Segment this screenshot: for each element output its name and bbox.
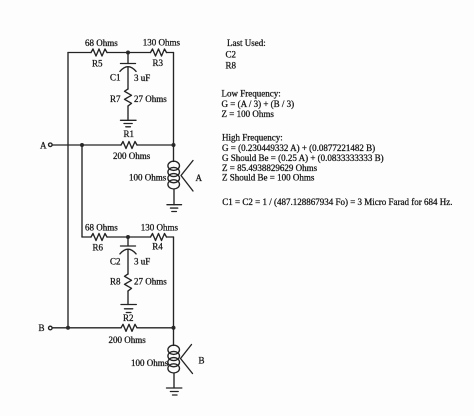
svg-text:G = (A / 3) + (B / 3): G = (A / 3) + (B / 3) [222, 99, 295, 109]
resistor R6 [91, 234, 107, 241]
wire B-section top middle segment [107, 236, 151, 238]
ground (below inductor A) [167, 205, 182, 212]
wire C2 top lead [127, 237, 129, 246]
wire A horizontal right segment [137, 144, 174, 146]
svg-text:Low Frequency:: Low Frequency: [222, 88, 281, 98]
svg-text:C2: C2 [226, 50, 237, 60]
svg-text:200 Ohms: 200 Ohms [113, 151, 151, 161]
resistor R5 [91, 49, 107, 56]
svg-text:A: A [196, 173, 203, 183]
wire R7 to ground [127, 106, 129, 120]
node B junction dot [66, 326, 70, 330]
wire B horizontal left segment [52, 327, 121, 329]
svg-text:R4: R4 [152, 242, 163, 252]
ground (below R8) [121, 305, 136, 313]
inductor L1 (speaker A coil) [168, 161, 180, 189]
svg-text:R3: R3 [153, 58, 164, 68]
svg-text:68 Ohms: 68 Ohms [85, 223, 118, 233]
node junction dot A right [172, 143, 176, 147]
node junction dot B right [172, 326, 176, 330]
svg-text:130 Ohms: 130 Ohms [141, 223, 179, 233]
svg-text:Z Should Be = 100 Ohms: Z Should Be = 100 Ohms [222, 173, 315, 183]
wire inductor A top lead [173, 145, 175, 162]
svg-text:27 Ohms: 27 Ohms [134, 277, 167, 287]
resistor R4 [151, 234, 167, 241]
node top junction dot [126, 51, 130, 55]
terminal B [39, 323, 53, 333]
capacitor C2 [120, 246, 136, 254]
resistor R8 [125, 274, 132, 291]
svg-text:3 uF: 3 uF [134, 257, 150, 267]
wire top left vertical (node B riser) [67, 53, 69, 328]
wire R8 to ground [127, 291, 129, 305]
svg-text:R7: R7 [110, 94, 121, 104]
wire C2 to R8 [127, 249, 129, 274]
svg-text:G = (0.230449332 A) + (0.08772: G = (0.230449332 A) + (0.0877221482 B) [222, 143, 375, 153]
wire C1 top lead [127, 53, 129, 64]
svg-text:100 Ohms: 100 Ohms [131, 358, 169, 368]
svg-text:C2: C2 [110, 257, 121, 267]
wire top horizontal right segment [167, 52, 174, 54]
resistor R7 [125, 89, 132, 106]
svg-text:R6: R6 [93, 242, 104, 252]
svg-text:High Frequency:: High Frequency: [222, 133, 283, 143]
wire top horizontal left segment [68, 52, 91, 54]
svg-text:R5: R5 [92, 59, 103, 69]
svg-text:130 Ohms: 130 Ohms [143, 38, 181, 48]
node A junction dot [80, 143, 84, 147]
wire B horizontal right segment [137, 327, 174, 329]
wire inductor B bottom lead [173, 373, 175, 388]
svg-text:27 Ohms: 27 Ohms [134, 94, 167, 104]
arrow B (speaker symbol) [181, 345, 193, 374]
wire B-section top horizontal left segment [82, 236, 91, 238]
resistor R1 [121, 142, 137, 149]
resistor R2 [121, 324, 137, 331]
ground (below inductor B) [167, 388, 182, 395]
svg-text:R2: R2 [123, 313, 134, 323]
wire A horizontal left segment [52, 144, 121, 146]
arrow A (speaker symbol) [181, 161, 193, 192]
resistor R3 [151, 49, 167, 56]
wire B-section top right segment [167, 236, 174, 238]
svg-text:R1: R1 [124, 129, 135, 139]
ground (below R7) [121, 120, 137, 127]
svg-text:A: A [40, 141, 47, 151]
wire right vertical lower [173, 237, 175, 328]
svg-text:R8: R8 [110, 277, 121, 287]
svg-text:G Should Be = (0.25 A) + (0.08: G Should Be = (0.25 A) + (0.0833333333 B… [222, 153, 384, 163]
svg-text:C1: C1 [110, 73, 121, 83]
wire node A riser down [81, 145, 83, 237]
wire C1 to R7 [127, 67, 129, 89]
wire inductor A bottom lead [173, 189, 175, 205]
svg-text:68 Ohms: 68 Ohms [85, 38, 118, 48]
svg-text:3 uF: 3 uF [134, 73, 150, 83]
wire inductor B top lead [173, 328, 175, 346]
wire right vertical upper [173, 53, 175, 146]
svg-text:B: B [39, 323, 45, 333]
svg-text:Last Used:: Last Used: [227, 38, 266, 48]
node B-section junction dot [126, 235, 130, 239]
svg-text:200 Ohms: 200 Ohms [109, 335, 147, 345]
svg-text:100 Ohms: 100 Ohms [129, 173, 167, 183]
wire top horizontal middle segment [107, 52, 151, 54]
svg-text:C1 = C2 = 1 / (487.128867934 F: C1 = C2 = 1 / (487.128867934 Fo) = 3 Mic… [222, 197, 452, 207]
svg-text:Z = 85.4938829629 Ohms: Z = 85.4938829629 Ohms [222, 163, 318, 173]
svg-text:B: B [199, 356, 205, 366]
capacitor C1 [120, 64, 136, 72]
svg-text:R8: R8 [226, 61, 237, 71]
svg-text:Z = 100 Ohms: Z = 100 Ohms [222, 109, 275, 119]
terminal A [40, 141, 52, 151]
inductor L2 (speaker B coil) [168, 345, 180, 373]
